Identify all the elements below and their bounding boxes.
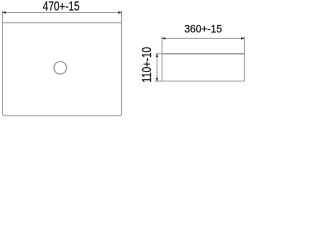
extension line right (360) <box>243 36 245 53</box>
extension line right (470) <box>121 10 123 22</box>
arrow up (110) <box>156 54 158 58</box>
extension line top (110) <box>155 53 162 55</box>
dimension line 110 <box>156 54 158 80</box>
arrow left (360) <box>162 37 166 39</box>
extension line left (360) <box>161 36 163 53</box>
svg-text:110+-10: 110+-10 <box>140 47 154 83</box>
svg-text:360+-15: 360+-15 <box>184 24 222 36</box>
arrow right (360) <box>241 37 245 39</box>
arrow left (470) <box>2 11 6 13</box>
basin top-view outline <box>3 23 122 116</box>
side-view top edge (darker) <box>162 53 244 55</box>
arrow down (110) <box>156 78 158 82</box>
svg-text:470+-15: 470+-15 <box>43 0 80 13</box>
dimension line 360 <box>163 37 245 39</box>
basin side-view outline <box>162 54 244 81</box>
extension line left (470) <box>2 10 4 22</box>
drain circle <box>54 62 67 75</box>
dimension line 470 <box>3 12 121 14</box>
extension line bottom (110) <box>155 80 162 82</box>
arrow right (470) <box>118 11 122 13</box>
